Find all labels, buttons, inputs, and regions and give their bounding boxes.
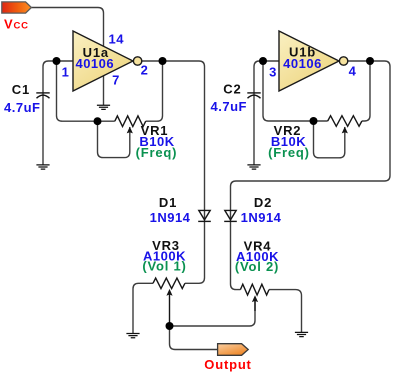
svg-text:3: 3 bbox=[269, 65, 277, 80]
svg-text:7: 7 bbox=[112, 73, 120, 88]
svg-text:D2: D2 bbox=[254, 195, 272, 210]
svg-text:(Freq): (Freq) bbox=[136, 145, 178, 160]
svg-text:4: 4 bbox=[349, 64, 357, 79]
svg-text:(Vol 2): (Vol 2) bbox=[235, 259, 279, 274]
svg-text:4.7uF: 4.7uF bbox=[4, 100, 40, 115]
svg-text:40106: 40106 bbox=[75, 56, 114, 71]
svg-text:(Vol 1): (Vol 1) bbox=[142, 259, 186, 274]
svg-text:1N914: 1N914 bbox=[150, 210, 191, 225]
svg-text:Output: Output bbox=[204, 357, 251, 372]
svg-text:VCC: VCC bbox=[4, 16, 29, 31]
svg-text:(Freq): (Freq) bbox=[268, 145, 310, 160]
svg-text:4.7uF: 4.7uF bbox=[211, 99, 247, 114]
svg-text:C2: C2 bbox=[223, 82, 241, 97]
svg-text:2: 2 bbox=[141, 63, 149, 78]
svg-text:1N914: 1N914 bbox=[241, 210, 282, 225]
svg-text:D1: D1 bbox=[159, 195, 177, 210]
svg-text:1: 1 bbox=[62, 65, 70, 80]
svg-text:14: 14 bbox=[109, 32, 125, 47]
svg-text:40106: 40106 bbox=[283, 56, 322, 71]
svg-text:C1: C1 bbox=[12, 82, 30, 97]
